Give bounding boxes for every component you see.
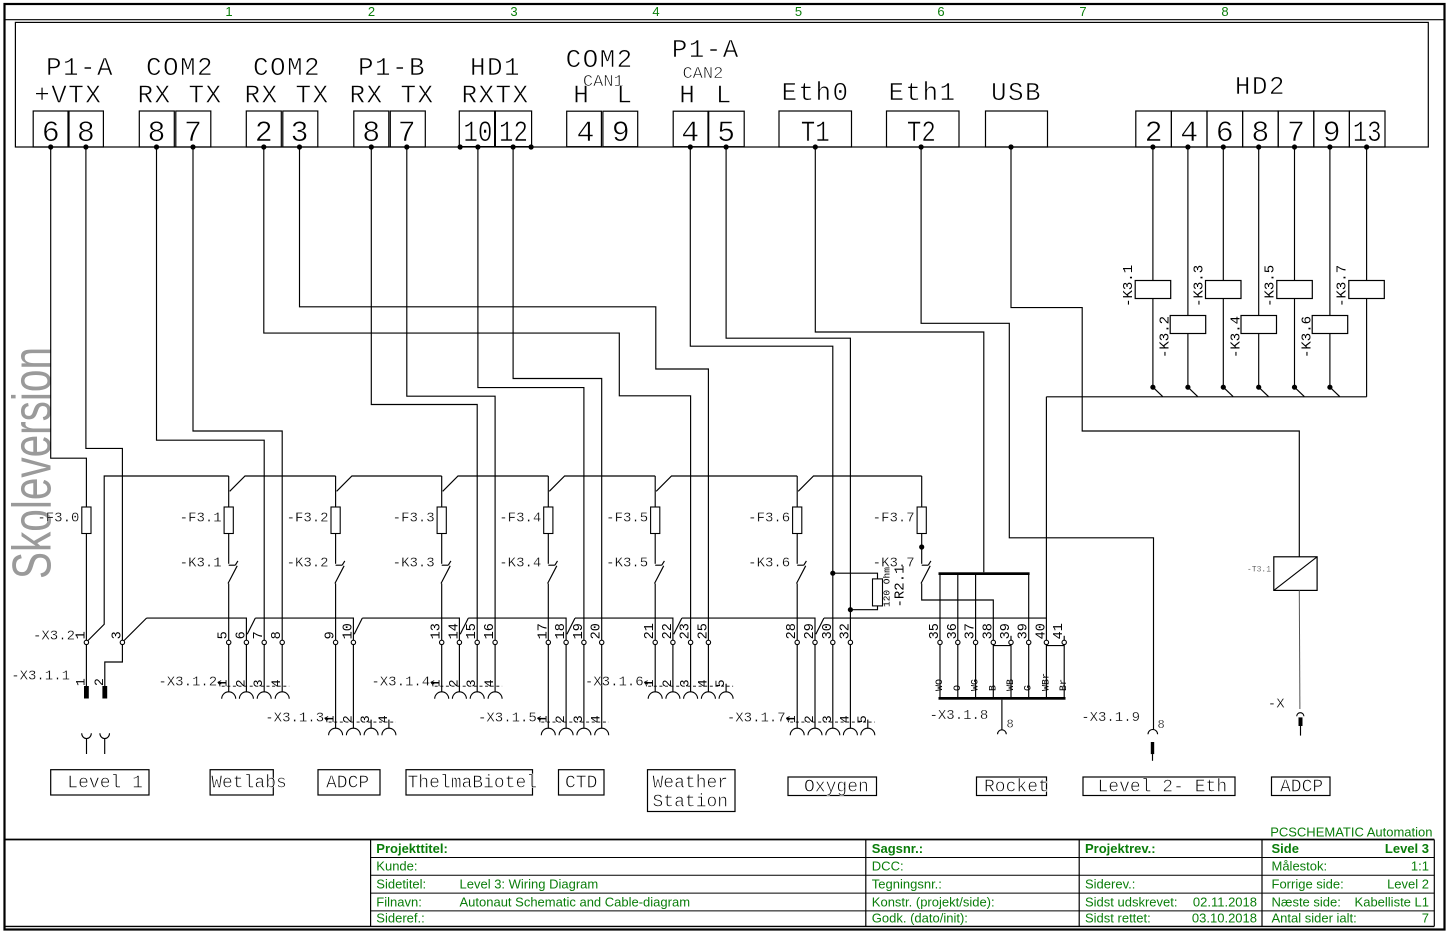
wire terminal to X3.1.8 bottom bar: [1045, 645, 1047, 697]
svg-text:Level 1: Level 1: [67, 774, 143, 794]
svg-text:-X3.1.7: -X3.1.7: [727, 711, 786, 727]
terminal X3.2:32: [848, 640, 852, 644]
relay contact K3.3: [442, 564, 449, 566]
common rail segment to terminal: [575, 618, 673, 640]
svg-text:+VTX: +VTX: [34, 81, 102, 111]
component box ADCP: [318, 770, 380, 795]
relay coil K3.6: [1312, 316, 1348, 334]
wire terminal into -X3.1.6: [672, 645, 674, 693]
junction dot K3.3: [1221, 385, 1226, 390]
common rail segment to terminal: [147, 618, 247, 640]
svg-text:2: 2: [92, 678, 107, 686]
connector COM2-2 pin 2 box: [246, 111, 281, 147]
svg-text:20: 20: [590, 623, 605, 639]
wire P1-B TX7 to X3.2:16: [407, 147, 495, 640]
wire terminal to X3.1.8 bottom bar: [1063, 645, 1065, 697]
wire P1-A pin8 to X3.2:3: [86, 147, 123, 640]
svg-text:Br: Br: [1059, 679, 1070, 691]
relay contact K3.7: [922, 564, 929, 566]
wire X3.1.8 bar to terminal: [939, 575, 941, 640]
svg-text:Rocket: Rocket: [984, 778, 1049, 798]
X3.1.9 cable arc: [1148, 730, 1158, 735]
svg-text:-F3.2: -F3.2: [287, 510, 329, 526]
wire terminal into -X3.1.6: [654, 645, 656, 693]
wire terminal to X3.1.8 bottom bar: [1028, 645, 1030, 697]
svg-text:-X3.1.6: -X3.1.6: [585, 675, 644, 691]
svg-text:-F3.5: -F3.5: [606, 510, 648, 526]
svg-text:1: 1: [225, 4, 232, 19]
svg-text:ThelmaBiotel: ThelmaBiotel: [408, 774, 538, 794]
svg-text:-K3.4: -K3.4: [499, 555, 541, 571]
svg-text:-X3.2: -X3.2: [33, 628, 75, 644]
wire coil K3.4 to contact dot: [1258, 334, 1260, 388]
svg-text:-F3.6: -F3.6: [748, 510, 790, 526]
common rail bevel: [247, 618, 255, 634]
connector Eth0 T1 box: [779, 111, 852, 147]
svg-text:L: L: [716, 81, 732, 111]
wire contact bus to X3.2:40: [1045, 397, 1047, 640]
wire terminal into -X3.1.7: [849, 645, 851, 729]
svg-text:WO: WO: [935, 679, 946, 691]
wire terminal into -X3.1.2: [263, 645, 265, 693]
svg-text:-X: -X: [1268, 697, 1285, 713]
component box Level 2- Eth: [1083, 777, 1235, 796]
svg-text:Eth0: Eth0: [781, 78, 849, 108]
screened wire T3.1 to -X: [1298, 590, 1301, 709]
svg-text:Tegningsnr.:: Tegningsnr.:: [872, 877, 942, 892]
svg-text:-K3.3: -K3.3: [1191, 265, 1207, 307]
svg-text:Konstr. (projekt/side):: Konstr. (projekt/side):: [872, 894, 995, 909]
svg-text:6: 6: [234, 631, 249, 639]
fuse F3.7: [917, 507, 926, 534]
wire HD2 to coil K3.4: [1258, 147, 1260, 316]
svg-text:25: 25: [696, 623, 711, 639]
svg-text:8: 8: [1007, 718, 1014, 732]
svg-text:Siderev.:: Siderev.:: [1085, 877, 1135, 892]
terminal X3.2:21: [653, 640, 657, 644]
svg-text:G: G: [1024, 685, 1035, 691]
fuse F3.4: [544, 507, 553, 534]
svg-text:Antal sider ialt:: Antal sider ialt:: [1272, 911, 1357, 926]
svg-text:ADCP: ADCP: [1280, 778, 1323, 798]
wire terminal to X3.1.8 bottom bar: [957, 645, 959, 697]
wire HD2 to coil K3.3: [1222, 147, 1224, 281]
svg-text:Projekttitel:: Projekttitel:: [376, 841, 448, 856]
connector CAN2 pin 5 box: [709, 111, 745, 147]
wire coil K3.1 to contact dot: [1152, 299, 1154, 388]
-X plug bar: [1299, 717, 1303, 726]
svg-text:9: 9: [612, 117, 630, 151]
wire COM2-1 RX8 to X3.2:7: [157, 147, 265, 640]
component box Level 1: [51, 770, 149, 795]
svg-text:HD1: HD1: [470, 53, 521, 83]
T3.1 diagonal: [1274, 557, 1317, 591]
svg-text:28: 28: [785, 623, 800, 639]
connector HD2 pin 13 box: [1349, 111, 1385, 147]
svg-text:16: 16: [483, 623, 498, 639]
terminal X3.2:38: [991, 640, 995, 644]
wire X3.1.8 bar to terminal: [1028, 575, 1030, 640]
svg-text:-K3.6: -K3.6: [748, 555, 790, 571]
relay contact K3.1: [229, 564, 236, 566]
terminal X3.2:22: [671, 640, 675, 644]
common rail segment to terminal: [255, 618, 353, 640]
connector P1-B pin 8 box: [354, 111, 389, 147]
isolator T3.1: [1274, 557, 1317, 591]
terminal X3.2:16: [493, 640, 497, 644]
svg-text:36: 36: [946, 623, 961, 639]
svg-text:-X3.1.3: -X3.1.3: [265, 711, 324, 727]
terminal X3.2:17: [546, 640, 550, 644]
terminal X3.2:9: [333, 640, 337, 644]
antenna symbol: [100, 733, 110, 738]
svg-text:COM2: COM2: [253, 53, 321, 83]
connector HD2 pin 6 box: [1207, 111, 1243, 147]
wire terminal into -X3.1.3: [352, 645, 354, 729]
contact blade K3.5: [1295, 388, 1304, 397]
svg-text:8: 8: [1158, 718, 1165, 732]
spare conductor -X3.1.7: [867, 720, 869, 729]
svg-text:ADCP: ADCP: [326, 774, 369, 794]
svg-text:H: H: [573, 81, 589, 111]
svg-text:7: 7: [1079, 4, 1086, 19]
wire contact K3.6 to terminal: [796, 584, 798, 641]
-X plug stem: [1300, 726, 1302, 736]
component box ThelmaBiotel: [406, 770, 533, 795]
terminal bar X3.1.1:1: [84, 686, 89, 699]
relay coil K3.7: [1349, 281, 1385, 299]
svg-text:-T3.1: -T3.1: [1247, 566, 1271, 575]
svg-text:3: 3: [110, 631, 125, 639]
X3.1.8 cable stem: [1001, 700, 1003, 730]
svg-text:Level 2: Level 2: [1387, 877, 1429, 892]
svg-text:03.10.2018: 03.10.2018: [1192, 911, 1257, 926]
svg-text:Filnavn:: Filnavn:: [376, 894, 422, 909]
wire CAN2 L pin5 to X3.2:32: [726, 147, 850, 640]
connector HD1 pin 10 box: [459, 111, 494, 147]
connector CAN2 pin 4 box: [673, 111, 708, 147]
wire terminal to X3.1.8 bottom bar: [975, 645, 977, 697]
ruler separator line: [5, 19, 1445, 21]
svg-text:WBr: WBr: [1041, 673, 1052, 691]
wire X3.2:1 to X3.1.1:1: [85, 645, 87, 686]
wire bus to fuse F3.4 top: [547, 476, 549, 507]
svg-text:COM2: COM2: [146, 53, 214, 83]
wire bus to fuse F3.7 top: [921, 476, 923, 507]
wire HD2 to coil K3.6: [1329, 147, 1331, 316]
svg-text:02.11.2018: 02.11.2018: [1193, 894, 1257, 909]
terminal X3.2:40: [1044, 640, 1048, 644]
svg-text:DCC:: DCC:: [872, 859, 904, 874]
wire terminal into -X3.1.5: [601, 645, 603, 729]
antenna symbol: [82, 733, 92, 738]
terminal X3.2:5: [227, 640, 231, 644]
svg-text:O: O: [953, 685, 964, 691]
svg-text:B: B: [988, 685, 999, 691]
svg-text:1:1: 1:1: [1411, 859, 1429, 874]
junction dot K3.4: [1256, 385, 1261, 390]
contact blade K3.2: [1189, 388, 1198, 397]
wire terminal to X3.1.8 bottom bar: [939, 645, 941, 697]
svg-text:Side: Side: [1272, 841, 1299, 856]
fuse bus segment with bevel: [230, 476, 336, 491]
svg-text:17: 17: [536, 623, 551, 639]
fuse F3.3: [437, 507, 446, 534]
svg-text:7: 7: [1422, 911, 1429, 926]
component box Weather: [648, 770, 736, 812]
wire CAN H to R2.1: [833, 573, 878, 579]
svg-text:Level 3: Wiring Diagram: Level 3: Wiring Diagram: [460, 877, 599, 892]
wire contact K3.2 to terminal: [335, 584, 337, 641]
connector USB box: [986, 111, 1048, 147]
wire X3.2:3 to X3.1.1:2: [105, 645, 123, 686]
svg-text:WG: WG: [971, 679, 982, 691]
wire CAN2 H pin4 to X3.2:30: [690, 147, 833, 640]
terminal X3.2:15: [475, 640, 479, 644]
component box Wetlabs: [210, 770, 273, 795]
wire contact K3.7 to X3.2:38: [922, 584, 994, 641]
common rail bevel: [567, 618, 575, 634]
wire COM2-2 TX3 to X3.2:25: [300, 147, 709, 640]
svg-text:Næste side:: Næste side:: [1272, 894, 1341, 909]
connector COM2-2 pin 3 box: [283, 111, 318, 147]
wire terminal into -X3.1.7: [796, 645, 798, 729]
wire contact K3.3 to terminal: [441, 584, 443, 641]
svg-text:HD2: HD2: [1235, 72, 1286, 102]
wire terminal into -X3.1.4: [458, 645, 460, 693]
fuse bus segment with bevel: [337, 476, 442, 491]
wire Eth0 T1 to X3.1.8 bar: [815, 147, 984, 572]
svg-text:-K3.7: -K3.7: [1335, 265, 1351, 307]
svg-text:41: 41: [1052, 623, 1067, 639]
svg-text:RX TX: RX TX: [137, 81, 222, 111]
stub above X3.2:41: [1063, 636, 1065, 640]
svg-text:Eth1: Eth1: [888, 78, 956, 108]
wire F3.6 to contact K3.6: [796, 534, 798, 564]
wire contact K3.5 to terminal: [654, 584, 656, 641]
wire F3.4 to contact K3.4: [547, 534, 549, 564]
wire X3.1.8 bar to terminal: [957, 575, 959, 640]
fuse F3.6: [793, 507, 802, 534]
spare conductor -X3.1.3: [370, 720, 372, 729]
spare conductor -X3.1.6: [725, 684, 727, 693]
svg-text:WB: WB: [1006, 679, 1017, 691]
-X socket arc: [1297, 713, 1304, 717]
common rail segment to terminal: [468, 618, 566, 640]
svg-text:3: 3: [510, 4, 517, 19]
svg-text:Oxygen: Oxygen: [804, 778, 869, 798]
terminal X3.2:23: [688, 640, 692, 644]
junction dot K3.1: [1150, 385, 1155, 390]
wire HD2 to coil K3.2: [1187, 147, 1189, 316]
fuse bus segment with bevel: [549, 476, 655, 491]
wire terminal into -X3.1.4: [441, 645, 443, 693]
svg-text:4: 4: [576, 117, 594, 151]
stub above X3.2:39: [1010, 636, 1012, 640]
wire terminal into -X3.1.3: [335, 645, 337, 729]
wire F3.2 to contact K3.2: [335, 534, 337, 564]
terminal bar X3.1.1:2: [102, 686, 107, 699]
relay coil K3.5: [1277, 281, 1313, 299]
wire terminal into -X3.1.6: [707, 645, 709, 693]
jumper X3.2:38-39: [993, 645, 1011, 647]
svg-text:Sidetitel:: Sidetitel:: [376, 877, 426, 892]
connector HD1 pin 12 box: [495, 111, 531, 147]
wire terminal into -X3.1.6: [690, 645, 692, 693]
wire coil K3.6 to contact dot: [1329, 334, 1331, 388]
fuse bus segment with bevel: [656, 476, 797, 491]
relay coil K3.4: [1241, 316, 1277, 334]
wire coil K3.7 to contact bus: [1366, 299, 1368, 397]
common rail bevel: [816, 618, 824, 634]
svg-text:-F3.7: -F3.7: [873, 510, 915, 526]
svg-text:-X3.1.4: -X3.1.4: [371, 675, 430, 691]
svg-text:P1-A: P1-A: [46, 53, 114, 83]
svg-text:-X3.1.9: -X3.1.9: [1081, 710, 1140, 726]
connector Eth1 T2 box: [887, 111, 960, 147]
fuse bus segment with bevel: [798, 476, 922, 491]
svg-text:2: 2: [368, 4, 375, 19]
wire contact K3.4 to terminal: [547, 584, 549, 641]
resistor R2.1: [873, 579, 883, 606]
wire bus to fuse F3.3 top: [441, 476, 443, 507]
wire coil K3.3 to contact dot: [1222, 299, 1224, 388]
X3.1.8 cable arc: [998, 730, 1007, 734]
wire coil K3.2 to contact dot: [1187, 334, 1189, 388]
svg-text:Målestok:: Målestok:: [1272, 859, 1328, 874]
wire coil K3.5 to contact dot: [1294, 299, 1296, 388]
svg-text:PCSCHEMATIC Automation: PCSCHEMATIC Automation: [1270, 825, 1432, 840]
common rail segment to terminal: [682, 618, 815, 640]
wire Eth1 T2 to X3.1.9: [921, 147, 1153, 729]
wire F3.5 to contact K3.5: [654, 534, 656, 564]
svg-text:Sidst rettet:: Sidst rettet:: [1085, 911, 1151, 926]
terminal X3.2:28: [795, 640, 799, 644]
terminal X3.2:35: [938, 640, 942, 644]
terminal X3.2:8: [280, 640, 284, 644]
svg-text:-K3.6: -K3.6: [1300, 316, 1316, 358]
terminal X3.2:30: [831, 640, 835, 644]
terminal X3.2:37: [973, 640, 977, 644]
wire terminal into -X3.1.5: [547, 645, 549, 729]
svg-text:RX TX: RX TX: [244, 81, 329, 111]
wire terminal into -X3.1.2: [228, 645, 230, 693]
fuse F3.0: [82, 507, 91, 534]
svg-text:Level 3: Level 3: [1385, 841, 1429, 856]
junction dot K3.6: [1327, 385, 1332, 390]
svg-text:9: 9: [324, 631, 339, 639]
pin connection dots on connector rail: [48, 144, 53, 149]
contact blade K3.4: [1260, 388, 1269, 397]
svg-text:38: 38: [981, 623, 996, 639]
contact blade K3.1: [1154, 388, 1163, 397]
svg-text:21: 21: [643, 623, 658, 639]
wire terminal into -X3.1.2: [245, 645, 247, 693]
svg-text:RX TX: RX TX: [349, 81, 434, 111]
wire HD1 pin10 to X3.2:19: [478, 147, 584, 640]
svg-text:8: 8: [1221, 4, 1228, 19]
svg-text:Forrige side:: Forrige side:: [1272, 877, 1344, 892]
contact blade K3.3: [1224, 388, 1233, 397]
terminal X3.2:3: [120, 640, 124, 644]
relay contact K3.6: [797, 564, 804, 566]
wire HD1 pin12 to X3.2:20: [513, 147, 602, 640]
junction dot CAN L: [848, 607, 853, 612]
svg-text:32: 32: [838, 623, 853, 639]
svg-text:18: 18: [554, 623, 569, 639]
svg-text:-K3.5: -K3.5: [606, 555, 648, 571]
terminal X3.2:25: [706, 640, 710, 644]
connector CAN1 pin 9 box: [603, 111, 638, 147]
wire HD2 to coil K3.1: [1152, 147, 1154, 281]
svg-text:Sidst udskrevet:: Sidst udskrevet:: [1085, 894, 1178, 909]
connector COM2-1 pin 7 box: [176, 111, 211, 147]
junction dot below F3.7: [919, 544, 924, 549]
svg-text:-X3.1.5: -X3.1.5: [478, 711, 537, 727]
common rail bevel: [674, 618, 682, 634]
svg-text:7: 7: [252, 631, 267, 639]
contact blade K3.6: [1331, 388, 1340, 397]
common rail bevel: [460, 618, 468, 634]
svg-text:8: 8: [270, 631, 285, 639]
junction dot K3.5: [1292, 385, 1297, 390]
svg-text:4: 4: [652, 4, 659, 19]
wire terminal into -X3.1.2: [281, 645, 283, 693]
svg-text:-F3.3: -F3.3: [393, 510, 435, 526]
svg-text:Godk. (dato/init):: Godk. (dato/init):: [872, 911, 968, 926]
wire bus to fuse F3.5 top: [654, 476, 656, 507]
svg-text:Weather: Weather: [653, 774, 729, 794]
svg-text:Level 2- Eth: Level 2- Eth: [1098, 778, 1228, 798]
fuse F3.5: [651, 507, 660, 534]
wire terminal into -X3.1.7: [814, 645, 816, 729]
svg-text:-R2.1: -R2.1: [893, 565, 909, 607]
svg-text:-K3.4: -K3.4: [1228, 316, 1244, 358]
svg-text:1: 1: [73, 678, 88, 686]
wire terminal into -X3.1.4: [476, 645, 478, 693]
svg-text:-X3.1.1: -X3.1.1: [11, 669, 70, 685]
wire contact K3.1 to terminal: [228, 584, 230, 641]
connector P1-A pin 8 box: [69, 111, 103, 147]
junction dot K3.2: [1185, 385, 1190, 390]
X3.1.9 plug stem: [1152, 754, 1154, 761]
svg-text:-K3.1: -K3.1: [1121, 265, 1137, 307]
wire bus to fuse F3.6 top: [796, 476, 798, 507]
svg-text:35: 35: [928, 623, 943, 639]
title block frame: [5, 839, 1435, 841]
svg-text:H: H: [679, 81, 695, 111]
svg-text:-K3.1: -K3.1: [180, 555, 222, 571]
svg-text:P1-A: P1-A: [672, 35, 740, 65]
svg-text:-K3.2: -K3.2: [1158, 316, 1174, 358]
junction dot CAN H: [830, 571, 835, 576]
svg-text:-F3.4: -F3.4: [499, 510, 541, 526]
common rail segment to terminal: [362, 618, 459, 640]
svg-text:5: 5: [795, 4, 802, 19]
svg-text:15: 15: [465, 623, 480, 639]
wire bus to fuse F3.2 top: [335, 476, 337, 507]
terminal X3.2:19: [582, 640, 586, 644]
wire COM2-1 TX7 to X3.2:8: [193, 147, 282, 640]
terminal X3.2:1: [84, 640, 88, 644]
component box ADCP: [1272, 777, 1331, 796]
svg-text:Wetlabs: Wetlabs: [211, 774, 287, 794]
svg-text:-K3.3: -K3.3: [393, 555, 435, 571]
svg-text:Kabelliste L1: Kabelliste L1: [1355, 894, 1429, 909]
wire COM2-2 RX2 to X3.2:23: [264, 147, 691, 640]
fuse bus segment with bevel: [443, 476, 549, 491]
wire HD2 to coil K3.7: [1366, 147, 1368, 281]
